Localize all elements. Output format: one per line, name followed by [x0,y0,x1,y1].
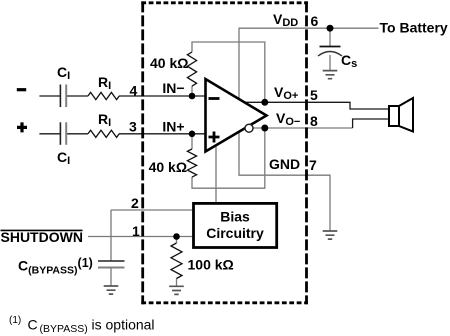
svg-text:7: 7 [309,157,317,173]
svg-text:2: 2 [131,195,139,211]
svg-text:SHUTDOWN: SHUTDOWN [1,229,83,245]
svg-text:5: 5 [310,87,318,103]
svg-text:To Battery: To Battery [380,20,448,36]
svg-text:Bias: Bias [220,209,250,225]
svg-text:GND: GND [269,156,300,172]
svg-text:3: 3 [129,119,137,135]
svg-text:100 kΩ: 100 kΩ [188,257,234,273]
svg-text:(1): (1) [9,315,21,326]
svg-text:C: C [28,317,38,333]
svg-text:IN+: IN+ [162,119,184,135]
svg-text:Circuitry: Circuitry [206,225,264,241]
svg-text:4: 4 [130,83,138,99]
svg-text:1: 1 [132,223,140,239]
svg-text:40 kΩ: 40 kΩ [150,55,188,71]
svg-text:8: 8 [310,113,318,129]
svg-text:is optional: is optional [92,317,155,333]
svg-text:40 kΩ: 40 kΩ [149,159,187,175]
svg-text:6: 6 [311,13,319,29]
svg-text:(BYPASS): (BYPASS) [40,323,88,335]
svg-text:IN−: IN− [162,80,184,96]
